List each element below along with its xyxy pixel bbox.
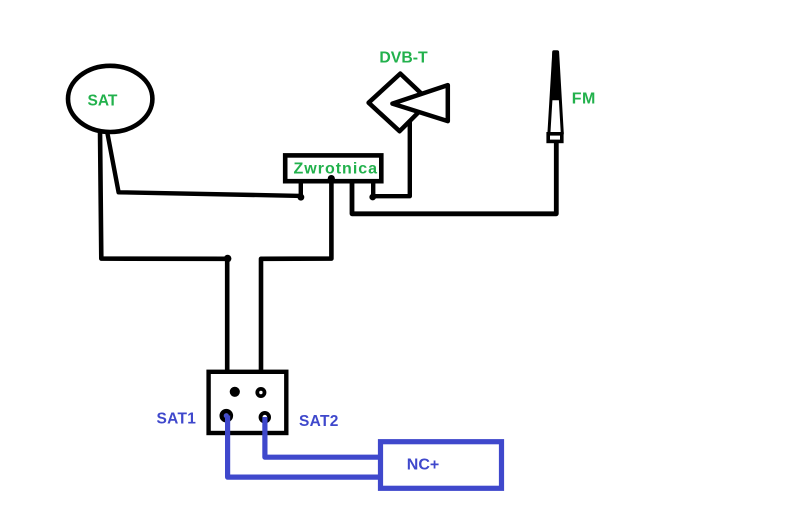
combiner Zwrotnica box bbox=[285, 155, 381, 181]
antenna DVB-T : diamond reflector bbox=[369, 74, 430, 132]
satellite dish SAT bbox=[68, 66, 152, 132]
multiswitch box bbox=[209, 372, 287, 433]
svg-text:Zwrotnica: Zwrotnica bbox=[294, 161, 379, 178]
receiver NC+ box bbox=[381, 442, 502, 489]
wire SAT1 to NC+ (blue) bbox=[228, 416, 379, 478]
wire Zwrotnica center output down to junction and multiswitch bbox=[261, 179, 331, 372]
dot at DVB-T stub bbox=[369, 194, 376, 201]
dot Zwrotnica bottom-center output bbox=[328, 175, 335, 182]
wire Zwrotnica to DVB-T antenna bbox=[373, 118, 410, 196]
svg-text:SAT1: SAT1 bbox=[157, 411, 197, 428]
svg-text:NC+: NC+ bbox=[407, 456, 439, 473]
wire SAT2 to NC+ (blue) bbox=[265, 417, 379, 457]
antenna DVB-T : director triangle bbox=[392, 85, 447, 121]
port dot bottom-left SAT1 bbox=[220, 409, 234, 423]
wire SAT right cable to Zwrotnica input bbox=[107, 131, 301, 196]
port dot top-right bbox=[255, 387, 266, 398]
svg-text:SAT: SAT bbox=[88, 92, 118, 109]
antenna FM : base block bbox=[548, 134, 562, 142]
dot at Zwrotnica left input stub bbox=[298, 194, 305, 201]
wire Zwrotnica to FM antenna bbox=[352, 140, 556, 214]
wire SAT left cable down to junction and multiswitch bbox=[100, 129, 227, 372]
svg-text:SAT2: SAT2 bbox=[299, 413, 339, 430]
antenna FM : solid upper section bbox=[552, 52, 560, 100]
port dot bottom-right SAT2 bbox=[259, 411, 271, 423]
antenna FM : whip outline bbox=[549, 52, 562, 134]
junction dot A bbox=[224, 255, 232, 263]
svg-text:FM: FM bbox=[572, 91, 596, 108]
svg-text:DVB-T: DVB-T bbox=[379, 49, 428, 66]
port dot top-left bbox=[230, 387, 240, 397]
